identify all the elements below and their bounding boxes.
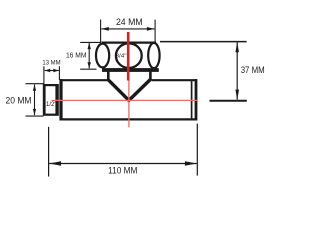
handle left end ellipse (96, 44, 109, 68)
body end groove (191, 80, 193, 120)
body left wall (59, 79, 62, 120)
centerline red thin horizontal (52, 99, 198, 101)
centerline red thick vertical (127, 32, 130, 81)
svg-text:20 MM: 20 MM (6, 95, 32, 105)
dimension 16 MM extension lines (80, 41, 101, 43)
V notch (108, 80, 150, 101)
body bottom edge (60, 118, 197, 120)
handle bottom bar (102, 68, 159, 72)
body right end face (195, 79, 198, 120)
svg-text:16 MM: 16 MM (66, 53, 87, 60)
left pipe bore (46, 86, 56, 113)
left pipe outer (43, 84, 59, 116)
dimension 16 MM line (88, 43, 90, 69)
svg-text:24 MM: 24 MM (116, 17, 143, 27)
dimension 37 MM line (236, 42, 238, 99)
dimension 24 MM extension lines (100, 20, 102, 42)
dimension 13 MM extension lines (43, 66, 45, 84)
svg-text:3/4": 3/4" (116, 54, 127, 60)
dimension 37 MM top reference line (160, 41, 247, 43)
dimension 37 MM bottom reference line (210, 100, 247, 102)
centerline red thin vertical (128, 81, 130, 128)
handle center ellipse (116, 43, 142, 68)
handle top tangent line (102, 41, 157, 43)
dimension 24 MM line (101, 28, 154, 30)
body top edge left segment (60, 79, 107, 81)
neck right stub (149, 70, 152, 81)
dimension 20 MM extension lines (26, 83, 44, 85)
svg-text:110 MM: 110 MM (108, 165, 137, 175)
dimension 20 MM line (34, 85, 36, 116)
handle right end ellipse (148, 43, 159, 68)
body top edge right segment (152, 79, 197, 81)
dimension 110 MM extension lines (48, 127, 50, 177)
svg-text:37 MM: 37 MM (241, 65, 265, 75)
svg-text:13 MM: 13 MM (42, 59, 61, 66)
svg-text:1/2": 1/2" (46, 102, 57, 108)
dimension 110 MM line (49, 163, 197, 165)
dimension 13 MM line (45, 70, 59, 72)
neck left stub (107, 70, 110, 81)
